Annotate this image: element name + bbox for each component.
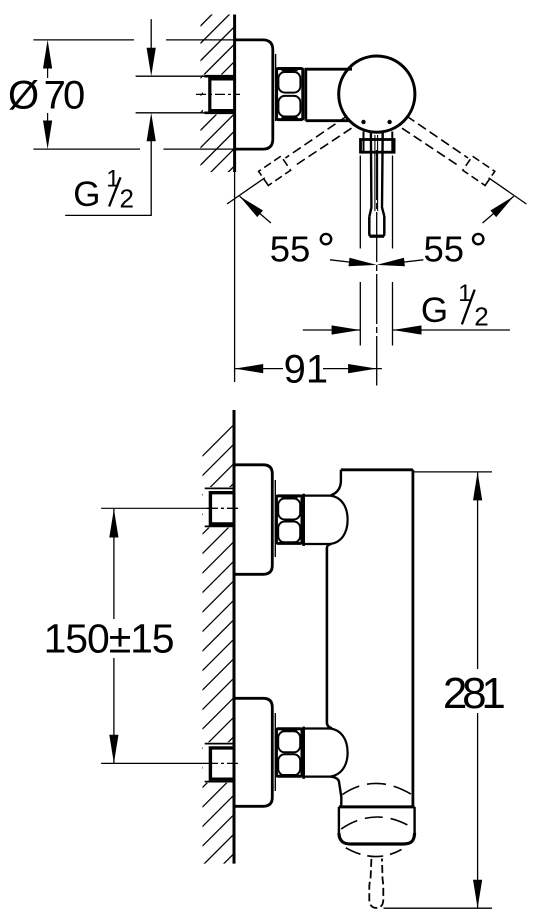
lever hub wide band bbox=[361, 140, 395, 153]
dimension Ø70 arrow up bbox=[43, 40, 52, 69]
G 1/2 dimension arrows (outlet thread) bbox=[303, 329, 360, 331]
svg-text:70: 70 bbox=[44, 74, 86, 118]
55-degree outer arrow left bbox=[240, 196, 271, 223]
lower hex nut outer bbox=[276, 729, 302, 777]
hex nut facet edge lines bbox=[282, 71, 298, 118]
dashed lever swung right: lower side bbox=[402, 128, 459, 166]
55-degree vertex arrow right bbox=[403, 260, 423, 262]
outlet extension line left (top view) bbox=[359, 156, 361, 346]
upper hex nut outer bbox=[276, 496, 302, 544]
dimension 150±15 line and arrows bbox=[113, 509, 115, 763]
taper from lower union to outlet bbox=[331, 777, 342, 807]
lower fitting centerline bbox=[207, 762, 240, 764]
lever hub upper band bbox=[364, 132, 393, 153]
svg-text:2: 2 bbox=[120, 183, 134, 213]
adapter piece between nut and body bbox=[306, 69, 352, 121]
outlet cup sides bbox=[339, 807, 415, 834]
upper union body (S-union) bbox=[304, 496, 348, 544]
upper escutcheon lip line bbox=[274, 480, 276, 557]
dashed lever swung right: upper side bbox=[407, 116, 469, 158]
dimension Ø70 arrow down bbox=[43, 121, 52, 150]
dimension 91 line with arrows bbox=[235, 368, 382, 370]
svg-text:2: 2 bbox=[474, 302, 488, 332]
upper in-wall fitting square bbox=[210, 493, 233, 524]
G 1/2 extension lines from wall fitting bbox=[136, 76, 205, 113]
hose nipple (dashed outline) bbox=[369, 859, 383, 908]
outlet extension line right (top view) bbox=[392, 156, 394, 346]
in-wall supply fitting (top view) flange ticks bbox=[204, 76, 234, 113]
dimension 281 extension line top bbox=[414, 471, 492, 473]
escutcheon lip line bbox=[275, 54, 277, 121]
faucet body circle (top view) bbox=[339, 56, 415, 132]
outlet hidden bottom arc (dashed) bbox=[346, 848, 402, 857]
hex nut facet octagons bbox=[278, 72, 300, 93]
screw dot left bbox=[361, 120, 365, 124]
lower in-wall fitting ticks bbox=[205, 744, 234, 782]
dashed lever swung right: tip outline bbox=[463, 156, 495, 185]
outlet cup bottom thick edge bbox=[339, 833, 415, 844]
svg-text:Ø: Ø bbox=[8, 74, 39, 118]
upper union left flange edge bbox=[302, 494, 305, 546]
lower hex nut facet edge lines bbox=[282, 730, 298, 775]
blank area around in-wall fitting (top view) bbox=[203, 75, 233, 115]
faucet body top-left connector curve bbox=[331, 470, 341, 496]
lever tip bottom thick edge bbox=[370, 235, 384, 238]
supply pipe centerline (dash-dot) bbox=[196, 93, 240, 95]
lower union left flange edge bbox=[302, 727, 305, 779]
dimension 281 line and arrows bbox=[477, 472, 479, 908]
in-wall supply fitting square bbox=[210, 79, 235, 111]
dashed lever swung left: upper side bbox=[285, 116, 347, 158]
svg-text:55: 55 bbox=[270, 229, 311, 270]
screw dot right bbox=[387, 120, 391, 124]
svg-text:55: 55 bbox=[424, 229, 465, 270]
wall hatching (lower view) bbox=[192, 409, 250, 896]
lower in-wall fitting square bbox=[210, 748, 233, 779]
upper escutcheon (lower view) bbox=[234, 465, 272, 575]
upper in-wall fitting ticks bbox=[205, 488, 234, 526]
wall face line (lower view) bbox=[233, 410, 236, 864]
dimension 281 extension line bottom bbox=[384, 907, 493, 909]
blank area around upper in-wall fitting (lower view) bbox=[203, 487, 233, 528]
dashed lever swung left: lower side bbox=[294, 128, 351, 166]
lever centerline (dash-dot) bbox=[376, 150, 378, 386]
svg-text:1: 1 bbox=[106, 166, 119, 193]
55-degree vertex arrow left bbox=[330, 260, 350, 262]
dimension Ø70 extension line bottom bbox=[33, 148, 237, 150]
55-degree outer arrow right bbox=[483, 196, 514, 223]
faucet body right edge bbox=[411, 470, 414, 807]
escutcheon flange (top view) bbox=[235, 40, 273, 149]
faucet body top edge bbox=[341, 468, 413, 471]
lever rod inner lines bbox=[375, 135, 378, 211]
dimension Ø70 extension line top bbox=[33, 39, 234, 41]
upper hex nut facet edge lines bbox=[282, 497, 298, 542]
outlet hidden top arc (dashed) bbox=[342, 783, 413, 795]
hex nut (top view) outer bbox=[277, 69, 303, 120]
svg-text:281: 281 bbox=[443, 669, 506, 718]
outlet hidden middle arc (dashed) bbox=[341, 817, 412, 829]
lower escutcheon (lower view) bbox=[234, 698, 272, 806]
lower escutcheon lip line bbox=[274, 713, 276, 791]
wall extension line down to 91 dimension bbox=[234, 172, 236, 382]
upper fitting centerline bbox=[207, 507, 240, 509]
lever rod bbox=[369, 131, 384, 217]
outlet cup top thick edge bbox=[339, 805, 415, 808]
svg-text:G: G bbox=[421, 291, 448, 330]
svg-text:G: G bbox=[73, 175, 100, 214]
lever tip box bbox=[369, 216, 384, 236]
G 1/2 arrow line upper bbox=[150, 19, 152, 52]
wall face line (top view) bbox=[233, 15, 236, 173]
G 1/2 arrow line lower with leader bbox=[147, 113, 156, 142]
wall hatching (top view) bbox=[190, 0, 250, 228]
faucet body left edge between unions bbox=[327, 544, 332, 728]
55-degree leg line right bbox=[489, 178, 527, 204]
svg-text:91: 91 bbox=[284, 347, 329, 391]
dimension 150±15 extension lines bbox=[101, 508, 207, 763]
blank area around lower in-wall fitting (lower view) bbox=[203, 742, 233, 783]
dashed lever swung left: tip outline bbox=[259, 156, 291, 185]
lower union body (S-union) bbox=[304, 729, 348, 777]
lower hex nut facet octagons bbox=[278, 731, 300, 752]
svg-text:150±15: 150±15 bbox=[44, 615, 175, 661]
55-degree leg line left bbox=[227, 178, 265, 204]
upper hex nut facet octagons bbox=[278, 499, 300, 520]
